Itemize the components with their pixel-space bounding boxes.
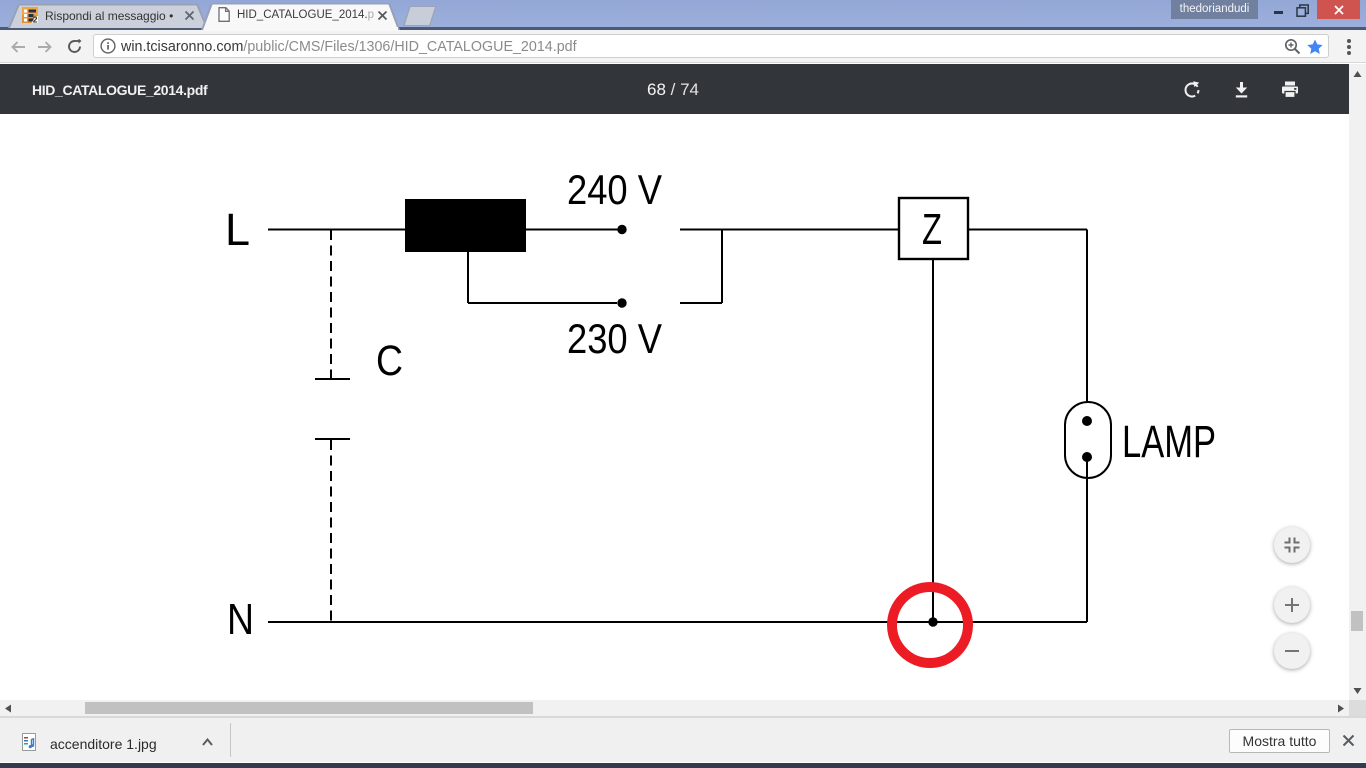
tab1 close — [184, 10, 195, 21]
separator — [230, 723, 231, 757]
download icon — [1233, 81, 1250, 98]
wire ballast bottom tap right — [468, 302, 617, 304]
ballast (black box) — [405, 199, 526, 252]
profile chip — [1171, 0, 1258, 19]
navy line under tabstrip — [0, 27, 1366, 30]
capacitor C plate bottom — [315, 438, 350, 440]
svg-text:230 V: 230 V — [567, 315, 662, 362]
tab2 close — [377, 10, 388, 21]
wire Z to right corner — [968, 229, 1087, 231]
capacitor C dashed lead bottom — [330, 440, 332, 622]
tab1 favicon (forum list icon) — [22, 7, 38, 23]
ignitor U1 box Z — [899, 198, 968, 259]
media file icon — [22, 733, 36, 751]
wire Z to N junction — [932, 259, 934, 622]
wire selector vertical — [721, 230, 723, 304]
svg-text:C: C — [376, 337, 403, 385]
wire selector bottom stub — [680, 302, 722, 304]
active tab 2 — [195, 0, 410, 30]
node 230V tap dot — [617, 298, 626, 307]
bar close — [1342, 734, 1355, 747]
capacitor C plate top — [315, 378, 350, 380]
tab2 doc icon — [218, 7, 230, 22]
svg-text:240 V: 240 V — [567, 166, 662, 213]
info icon — [100, 38, 116, 54]
svg-text:Z: Z — [922, 205, 942, 254]
junction node dot — [928, 617, 937, 626]
svg-text:N: N — [227, 595, 254, 644]
forward arrow (disabled) — [37, 41, 52, 53]
red highlight circle annotation — [892, 587, 968, 663]
close button — [1317, 0, 1360, 19]
magnifier — [1284, 38, 1301, 55]
lamp LP1 envelope — [1065, 402, 1111, 478]
wire down to lamp — [1086, 230, 1088, 422]
minimize — [1274, 11, 1283, 14]
active tab join (covers navy line) — [204, 27, 398, 31]
inactive tab 1 — [0, 0, 220, 28]
lamp electrode bottom dot — [1082, 452, 1092, 462]
wire N line — [268, 621, 1087, 623]
wire selector top to Z — [680, 229, 899, 231]
svg-text:LAMP: LAMP — [1122, 416, 1216, 467]
wire ballast bottom tap down — [467, 252, 469, 303]
bookmark star — [1307, 39, 1323, 55]
URL box — [93, 34, 1329, 58]
print icon — [1281, 81, 1299, 98]
svg-text:2: 2 — [33, 14, 38, 23]
back arrow (disabled) — [11, 41, 26, 53]
reload — [67, 39, 82, 54]
node 240V tap dot — [617, 225, 626, 234]
wire L to ballast — [268, 229, 406, 231]
Mostra tutto button — [1229, 729, 1330, 753]
svg-text:L: L — [225, 204, 250, 255]
new tab button — [400, 5, 440, 27]
rotate icon — [1183, 81, 1201, 99]
wire lamp to N — [1086, 457, 1088, 622]
wire ballast to 240V tap — [526, 229, 618, 231]
lamp electrode top dot — [1082, 416, 1092, 426]
restore — [1296, 4, 1310, 18]
chevron up — [202, 738, 213, 746]
menu dots — [1345, 38, 1353, 56]
capacitor C dashed lead top — [330, 230, 332, 378]
